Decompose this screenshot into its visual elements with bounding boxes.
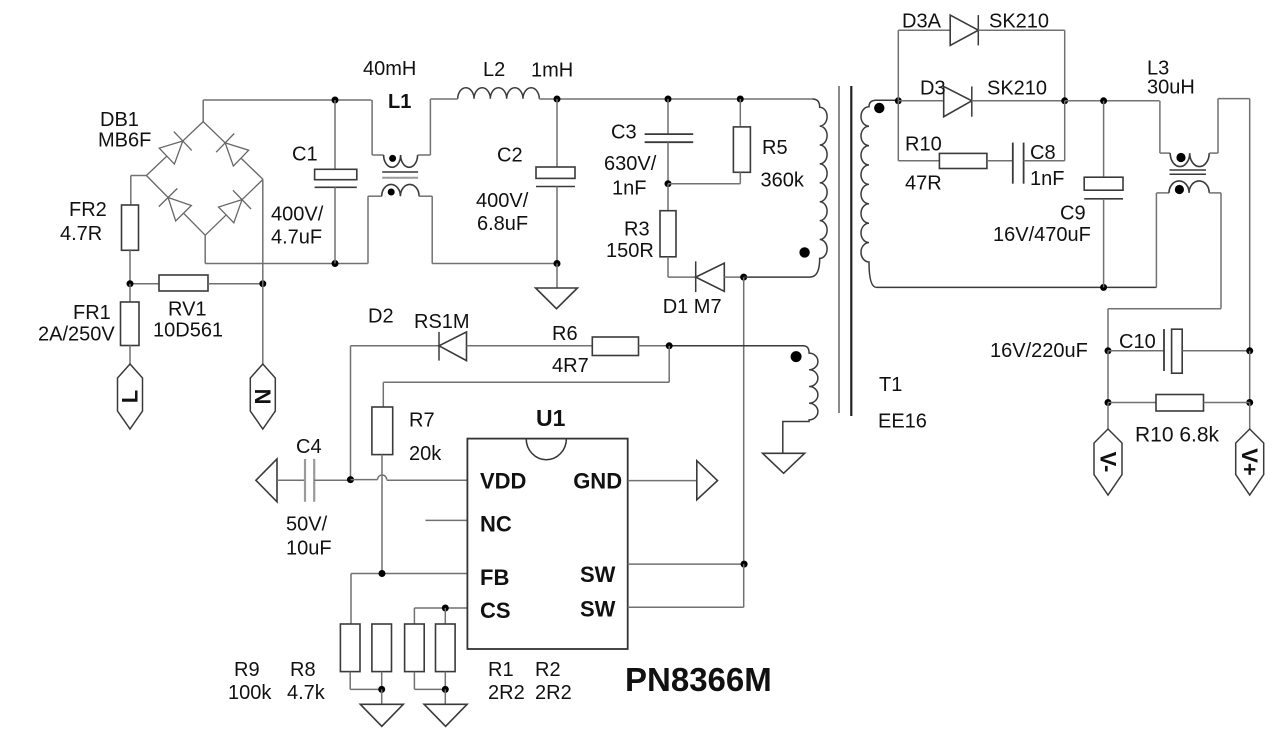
svg-text:MB6F: MB6F xyxy=(98,130,151,152)
svg-text:30uH: 30uH xyxy=(1147,77,1195,99)
svg-text:630V/: 630V/ xyxy=(604,153,657,175)
svg-text:40mH: 40mH xyxy=(363,58,416,80)
svg-text:SW: SW xyxy=(580,597,616,622)
svg-text:L1: L1 xyxy=(388,91,411,113)
svg-text:6.8uF: 6.8uF xyxy=(477,213,528,235)
svg-text:RS1M: RS1M xyxy=(414,311,470,333)
svg-text:2R2: 2R2 xyxy=(488,682,525,704)
svg-text:C8: C8 xyxy=(1030,142,1056,164)
svg-text:D1 M7: D1 M7 xyxy=(663,296,722,318)
svg-text:N: N xyxy=(251,389,276,405)
svg-text:R2: R2 xyxy=(535,659,561,681)
svg-text:FR1: FR1 xyxy=(73,302,111,324)
svg-text:D2: D2 xyxy=(368,306,394,328)
svg-text:FB: FB xyxy=(480,565,509,590)
svg-text:16V/470uF: 16V/470uF xyxy=(993,224,1091,246)
svg-text:150R: 150R xyxy=(606,240,654,262)
svg-text:R8: R8 xyxy=(290,659,316,681)
svg-text:360k: 360k xyxy=(761,170,805,192)
svg-text:R10: R10 xyxy=(905,134,942,156)
svg-text:C4: C4 xyxy=(296,436,322,458)
svg-text:C10: C10 xyxy=(1119,331,1156,353)
svg-text:400V/: 400V/ xyxy=(271,204,324,226)
svg-text:R6: R6 xyxy=(552,323,578,345)
svg-text:L: L xyxy=(118,390,143,403)
svg-text:50V/: 50V/ xyxy=(286,514,328,536)
svg-text:SW: SW xyxy=(580,562,616,587)
svg-text:D3A: D3A xyxy=(902,11,942,33)
svg-text:400V/: 400V/ xyxy=(476,190,529,212)
svg-text:FR2: FR2 xyxy=(69,199,107,221)
svg-text:4R7: 4R7 xyxy=(552,355,589,377)
svg-text:R1: R1 xyxy=(488,659,514,681)
svg-text:L2: L2 xyxy=(483,59,505,81)
svg-text:NC: NC xyxy=(480,512,512,537)
svg-text:R10 6.8k: R10 6.8k xyxy=(1135,424,1220,447)
svg-text:PN8366M: PN8366M xyxy=(625,661,772,698)
svg-text:SK210: SK210 xyxy=(987,78,1047,100)
svg-text:1mH: 1mH xyxy=(531,60,573,82)
svg-text:C1: C1 xyxy=(292,144,318,166)
svg-text:U1: U1 xyxy=(536,405,566,431)
svg-text:VDD: VDD xyxy=(480,469,526,494)
svg-text:CS: CS xyxy=(480,598,511,623)
svg-text:2R2: 2R2 xyxy=(535,682,572,704)
svg-text:GND: GND xyxy=(573,469,622,494)
svg-text:SK210: SK210 xyxy=(989,11,1049,33)
svg-text:C3: C3 xyxy=(611,122,637,144)
svg-text:16V/220uF: 16V/220uF xyxy=(990,340,1088,362)
svg-text:EE16: EE16 xyxy=(878,411,927,433)
svg-text:1nF: 1nF xyxy=(1030,168,1064,190)
svg-text:R5: R5 xyxy=(762,137,788,159)
svg-text:C9: C9 xyxy=(1060,203,1086,225)
svg-text:D3: D3 xyxy=(920,78,946,100)
svg-text:100k: 100k xyxy=(228,682,272,704)
svg-text:C2: C2 xyxy=(497,145,523,167)
svg-text:R9: R9 xyxy=(234,659,260,681)
svg-text:T1: T1 xyxy=(879,374,902,396)
svg-text:R3: R3 xyxy=(624,219,650,241)
svg-text:20k: 20k xyxy=(409,443,442,465)
svg-text:10D561: 10D561 xyxy=(153,320,223,342)
svg-text:2A/250V: 2A/250V xyxy=(38,324,115,346)
svg-text:47R: 47R xyxy=(905,173,942,195)
svg-text:4.7k: 4.7k xyxy=(287,682,326,704)
svg-text:V-: V- xyxy=(1095,452,1120,473)
svg-text:10uF: 10uF xyxy=(286,538,332,560)
svg-text:4.7R: 4.7R xyxy=(60,223,102,245)
svg-text:4.7uF: 4.7uF xyxy=(271,227,322,249)
svg-text:1nF: 1nF xyxy=(612,178,646,200)
svg-text:RV1: RV1 xyxy=(168,299,207,321)
svg-text:V+: V+ xyxy=(1237,448,1262,476)
svg-text:R7: R7 xyxy=(409,410,435,432)
svg-text:DB1: DB1 xyxy=(100,109,139,131)
